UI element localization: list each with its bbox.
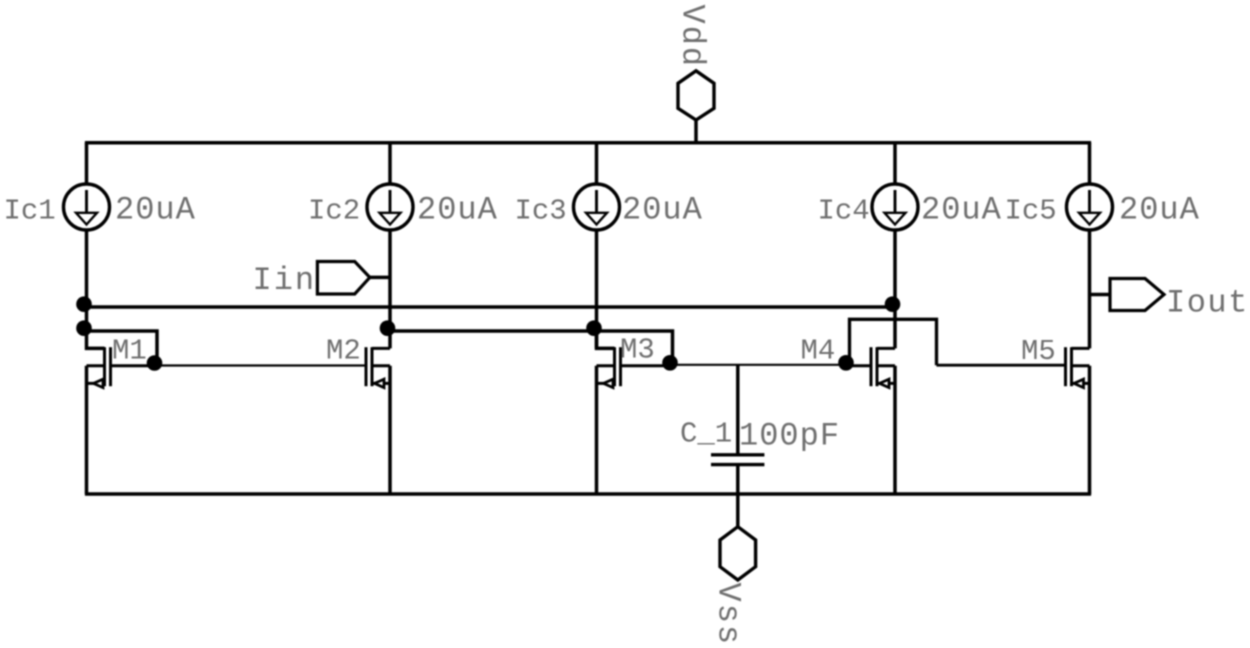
svg-text:M4: M4 — [801, 335, 836, 368]
current source Ic1 20uA — [64, 184, 110, 230]
wire gate-drain net M1 (left segment) — [87, 331, 158, 366]
wire capacitor to Vss — [736, 465, 740, 528]
wire M4 loop to M5 gate bar — [937, 364, 1066, 367]
node M1 gate pin junction — [147, 355, 163, 371]
transistor M4 (NMOS) — [871, 347, 895, 494]
Vss port symbol (iopin hexagon) — [710, 527, 756, 646]
wire Iin port stub — [370, 276, 390, 280]
wire M3 drain net to capacitor C_1 — [736, 365, 740, 454]
transistor M5 (NMOS) — [1066, 347, 1090, 494]
svg-text:M5: M5 — [1021, 335, 1056, 368]
output pin Iout (opin pentagon) — [1110, 279, 1164, 311]
wire from top rail to current source Ic4 — [893, 143, 897, 184]
wire M1 drain connection — [87, 331, 105, 348]
transistor M3 (NMOS) — [597, 347, 673, 494]
node M2 drain junction — [380, 320, 396, 336]
svg-text:Ic3: Ic3 — [515, 195, 567, 228]
wire Ic2 to M2 drain — [388, 230, 392, 348]
current source Ic5 20uA — [1067, 184, 1113, 230]
node Iin-rail / Ic1 junction — [76, 296, 92, 312]
svg-text:Vss: Vss — [710, 583, 747, 647]
wire from top rail to current source Ic5 — [1088, 143, 1092, 184]
wire M3 drain node to M4 gate — [673, 364, 849, 366]
wire M4 gate lead — [849, 364, 872, 367]
svg-text:C_1: C_1 — [680, 418, 732, 451]
svg-text:Iout: Iout — [1166, 285, 1249, 322]
wire from top rail to current source Ic1 — [85, 143, 89, 184]
current source Ic4 20uA — [872, 184, 918, 230]
svg-text:M1: M1 — [112, 335, 147, 368]
svg-text:Ic5: Ic5 — [1005, 195, 1057, 228]
node M4 gate pin junction — [838, 355, 854, 371]
node M1 gate-drain junction — [76, 320, 92, 336]
svg-text:20uA: 20uA — [921, 192, 1002, 229]
svg-text:Ic4: Ic4 — [818, 195, 870, 228]
svg-text:20uA: 20uA — [622, 192, 703, 229]
svg-text:M2: M2 — [326, 335, 361, 368]
transistor M2 (NMOS) — [366, 347, 390, 494]
wire rail M2-M3 net — [390, 331, 673, 366]
wire from top rail to current source Ic3 — [595, 143, 599, 184]
wire Ic4 to M4 drain — [893, 230, 897, 348]
wire M1 gate to M2 gate — [157, 364, 367, 366]
wire M4 gate loop to M5 gate — [850, 319, 937, 366]
svg-text:100pF: 100pF — [739, 418, 840, 455]
Vdd port symbol (iopin hexagon) — [674, 5, 715, 143]
svg-text:Iin: Iin — [253, 262, 317, 299]
wire rail Iin net (upper) — [85, 305, 897, 309]
input pin Iin (ipin pentagon) — [317, 262, 369, 295]
svg-text:20uA: 20uA — [417, 192, 498, 229]
svg-text:20uA: 20uA — [1119, 192, 1200, 229]
wire Ic1 to node — [85, 230, 89, 331]
node M3 gate junction — [586, 320, 602, 336]
svg-text:Vdd: Vdd — [674, 5, 711, 69]
wire M3 drain connection — [597, 331, 615, 348]
node rail to M4 drain junction — [885, 296, 901, 312]
node M3 drain / M4 gate wire junction — [662, 355, 678, 371]
wire Ic3 to node — [595, 230, 599, 348]
wire Ic5 to M5 drain — [1088, 230, 1092, 348]
wire from top rail to current source Ic2 — [388, 143, 392, 184]
svg-text:20uA: 20uA — [115, 192, 196, 229]
transistor M1 (NMOS) — [87, 347, 158, 494]
svg-text:Ic2: Ic2 — [308, 195, 360, 228]
svg-text:Ic1: Ic1 — [4, 195, 56, 228]
current source Ic2 20uA — [367, 184, 413, 230]
capacitor C_1 100pF — [711, 455, 764, 465]
wire Vdd top rail — [85, 141, 1091, 145]
wire Iout port stub — [1090, 293, 1111, 297]
svg-text:M3: M3 — [620, 334, 655, 367]
current source Ic3 20uA — [574, 184, 620, 230]
wire Vss bottom rail — [85, 492, 1091, 496]
